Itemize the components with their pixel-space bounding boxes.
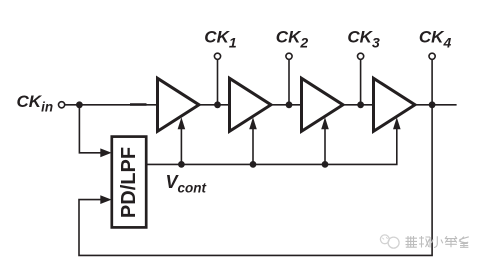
node CK3 junction bbox=[357, 101, 364, 108]
terminal CK1 bbox=[214, 53, 220, 59]
wire control arrow 1 shaft bbox=[180, 129, 182, 165]
node CK1 junction bbox=[214, 101, 221, 108]
node control 1 bbox=[178, 161, 185, 168]
svg-text:PD/LPF: PD/LPF bbox=[118, 147, 140, 218]
svg-text:CK4: CK4 bbox=[419, 28, 452, 51]
node A junction on input wire bbox=[76, 101, 83, 108]
buffer U1 bbox=[158, 78, 200, 131]
node control 3 bbox=[322, 161, 329, 168]
wire U2 out bbox=[271, 104, 302, 106]
wire U3 out bbox=[343, 104, 374, 106]
arrowhead into U1 bbox=[178, 117, 186, 129]
terminal CK4 bbox=[429, 53, 435, 59]
wire U4 out stub bbox=[415, 104, 457, 106]
arrowhead into U4 bbox=[393, 117, 401, 129]
wire feedback path bbox=[79, 105, 432, 256]
wire CK2 tap bbox=[288, 59, 290, 104]
arrowhead into PD bottom input bbox=[100, 195, 111, 204]
buffer U2 bbox=[230, 78, 272, 131]
wire artifact thick segment bbox=[130, 103, 147, 105]
node control 2 bbox=[250, 161, 257, 168]
wire CK4 tap bbox=[431, 59, 433, 104]
node CK4 junction bbox=[429, 101, 436, 108]
wire CK3 tap bbox=[360, 59, 362, 104]
wire node A to PD input bbox=[79, 105, 101, 153]
watermark logo bbox=[380, 235, 399, 248]
arrowhead into U2 bbox=[249, 117, 257, 129]
wire Vcont control line bbox=[146, 129, 397, 165]
node CK2 junction bbox=[286, 101, 293, 108]
buffer U3 bbox=[302, 78, 344, 131]
arrowhead into U3 bbox=[321, 117, 329, 129]
terminal CKin bbox=[59, 102, 65, 108]
wire CKin input bbox=[65, 104, 158, 106]
svg-text:CKin: CKin bbox=[17, 92, 54, 115]
wire U1 out bbox=[199, 104, 230, 106]
terminal CK3 bbox=[358, 53, 364, 59]
svg-text:CK1: CK1 bbox=[204, 28, 237, 51]
svg-text:Vcont: Vcont bbox=[166, 172, 207, 196]
wire control arrow 3 shaft bbox=[324, 129, 326, 165]
svg-text:CK2: CK2 bbox=[276, 28, 309, 51]
terminal CK2 bbox=[286, 53, 292, 59]
watermark text bbox=[406, 236, 469, 248]
wire control arrow 2 shaft bbox=[252, 129, 254, 165]
arrowhead into PD top input bbox=[100, 148, 111, 157]
block PD/LPF bbox=[112, 137, 146, 228]
svg-text:CK3: CK3 bbox=[347, 28, 380, 51]
wire CK1 tap bbox=[217, 59, 219, 104]
buffer U4 bbox=[374, 78, 416, 131]
